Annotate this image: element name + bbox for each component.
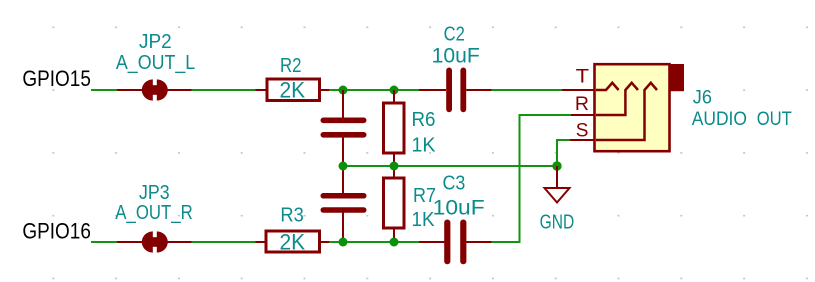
- jumper JP2 pins: [117, 89, 192, 91]
- jack T pin stub: [562, 89, 595, 91]
- resistor R6 body: [384, 103, 405, 153]
- wire sleeve vertical x=557: [556, 139, 558, 166]
- wire GPIO16 to JP3: [91, 241, 118, 243]
- svg-text:10uF: 10uF: [432, 45, 480, 68]
- capacitor branch second upper pin x=343: [342, 166, 344, 194]
- junction dot bottom at x=394: [390, 238, 399, 247]
- svg-text:JP2: JP2: [139, 31, 172, 53]
- svg-text:J6: J6: [693, 87, 712, 108]
- svg-text:1K: 1K: [412, 135, 437, 157]
- svg-text:2K: 2K: [280, 229, 306, 254]
- svg-text:OUT: OUT: [757, 109, 792, 130]
- svg-text:A_OUT_L: A_OUT_L: [116, 52, 195, 74]
- svg-text:R3: R3: [280, 205, 303, 227]
- resistor R7 pins: [393, 166, 395, 178]
- svg-text:R2: R2: [280, 55, 302, 77]
- wire R2 to C2: [329, 89, 420, 91]
- capacitor C2 pins: [419, 89, 446, 91]
- wire vertical ring net x=519.5: [519, 115, 521, 243]
- svg-text:S: S: [576, 120, 589, 141]
- wire R3 to C3: [329, 241, 420, 243]
- svg-text:A_OUT_R: A_OUT_R: [115, 202, 192, 224]
- jack sleeve contact: [596, 83, 657, 140]
- jumper JP3 pins: [117, 241, 192, 243]
- connector J6 sleeve tab: [669, 64, 685, 91]
- svg-text:T: T: [576, 66, 590, 87]
- jack S pin stub: [570, 139, 595, 141]
- resistor R3 pins: [256, 241, 267, 243]
- resistor R2 body: [267, 79, 320, 101]
- power symbol GND triangle: [545, 188, 570, 203]
- svg-text:JP3: JP3: [139, 182, 170, 204]
- junction dot bottom at x=343: [339, 238, 348, 247]
- svg-text:10uF: 10uF: [433, 196, 485, 219]
- jumper JP2 body: [142, 79, 168, 100]
- junction dot middle at x=394: [390, 162, 399, 171]
- capacitor plates lower (between middle and bottom wire): [321, 193, 367, 213]
- junction dot top at x=394: [390, 86, 399, 95]
- wire sleeve row horizontal: [556, 139, 571, 141]
- junction dot middle at x=343: [339, 162, 348, 171]
- jumper JP3 body: [142, 231, 168, 252]
- resistor R7 body: [384, 178, 405, 228]
- wire JP3 to R3: [192, 241, 257, 243]
- jack ring contact: [596, 83, 638, 115]
- capacitor C3 pins: [419, 241, 446, 243]
- wire C3 to ring net corner: [492, 241, 521, 243]
- jack tip contact: [596, 83, 619, 90]
- svg-text:GND: GND: [540, 211, 575, 233]
- wire C2 to jack T pin: [492, 89, 563, 91]
- svg-text:C2: C2: [444, 23, 465, 45]
- capacitor branch lower pin segment x=343: [342, 137, 344, 166]
- capacitor C3 plates: [444, 220, 466, 265]
- jack R pin stub: [571, 114, 595, 116]
- svg-text:AUDIO: AUDIO: [692, 109, 747, 130]
- svg-text:R: R: [575, 94, 589, 115]
- svg-text:R6: R6: [412, 109, 436, 131]
- junction dot top at x=343: [339, 86, 348, 95]
- resistor R2 pins: [256, 89, 268, 91]
- wire GPIO15 to JP2: [91, 89, 118, 91]
- power symbol GND pin: [556, 166, 558, 188]
- svg-text:C3: C3: [443, 173, 466, 195]
- svg-text:1K: 1K: [412, 209, 436, 231]
- resistor R6 pins: [393, 90, 395, 103]
- svg-text:2K: 2K: [280, 78, 306, 103]
- capacitor plates upper (between top and middle wire): [321, 118, 367, 138]
- wire JP2 to R2: [192, 89, 257, 91]
- connector J6 body: [595, 64, 670, 151]
- capacitor branch second lower pin x=343: [342, 213, 344, 243]
- svg-text:GPIO16: GPIO16: [22, 219, 91, 244]
- svg-text:GPIO15: GPIO15: [22, 66, 91, 91]
- wire middle horizontal: [343, 165, 557, 167]
- resistor R3 body: [266, 231, 320, 252]
- capacitor branch upper pin segment x=343: [342, 90, 344, 118]
- wire ring row horizontal: [519, 114, 572, 116]
- junction dot middle at x=557: [552, 161, 561, 170]
- capacitor C2 plates: [446, 68, 466, 113]
